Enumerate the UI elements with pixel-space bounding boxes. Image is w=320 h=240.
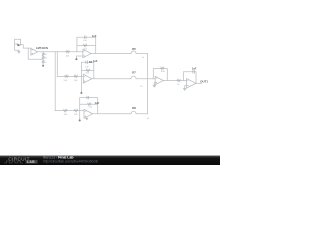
svg-text:R8: R8 [132, 106, 136, 110]
svg-text:OUT1: OUT1 [200, 79, 208, 83]
svg-text:R5: R5 [132, 47, 136, 51]
svg-text:http://circuitlab.com/c/bu447r: http://circuitlab.com/c/bu447r9nx5cm8 [43, 160, 98, 164]
svg-text:1uF: 1uF [83, 40, 87, 42]
svg-text:1uF: 1uF [192, 67, 197, 71]
svg-text:LAB: LAB [27, 160, 35, 164]
svg-text:1uF: 1uF [92, 34, 97, 38]
svg-text:1uF: 1uF [95, 101, 100, 105]
svg-text:1uF: 1uF [85, 67, 89, 69]
svg-text:LM741CN: LM741CN [36, 46, 48, 50]
svg-text:R7: R7 [132, 71, 136, 75]
svg-text:1uF: 1uF [93, 59, 98, 63]
